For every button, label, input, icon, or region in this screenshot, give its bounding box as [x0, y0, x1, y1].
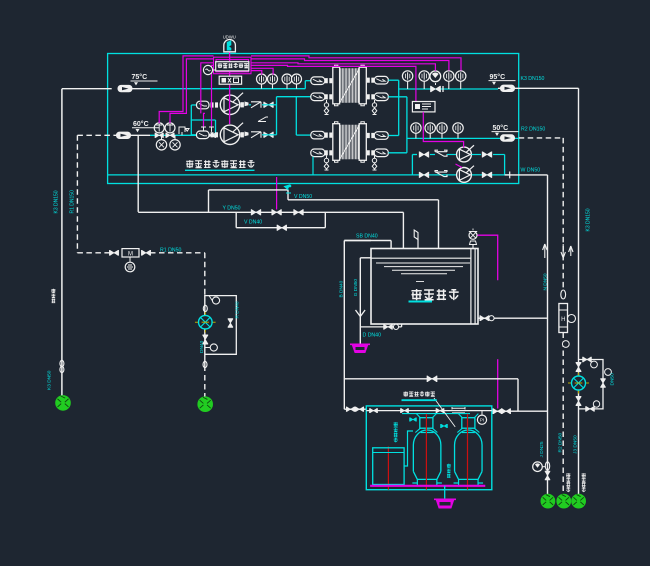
svg-text:DN40: DN40 — [199, 340, 205, 353]
svg-text:V DN40: V DN40 — [244, 220, 262, 226]
svg-text:V DN50: V DN50 — [294, 194, 312, 200]
svg-text:60°C: 60°C — [133, 120, 149, 128]
svg-text:R DN40: R DN40 — [234, 301, 240, 318]
svg-text:DN50: DN50 — [610, 373, 616, 386]
svg-text:Y DN50: Y DN50 — [223, 206, 241, 212]
svg-text:J DN25: J DN25 — [539, 441, 545, 457]
svg-text:R1 DN50: R1 DN50 — [160, 248, 181, 254]
svg-text:R2 DN50: R2 DN50 — [558, 432, 564, 452]
svg-text:N DN50: N DN50 — [543, 273, 549, 290]
svg-text:J3 DN50: J3 DN50 — [573, 435, 579, 454]
svg-text:R2 DN150: R2 DN150 — [521, 127, 545, 133]
svg-text:50°C: 50°C — [493, 124, 509, 132]
svg-text:R1 DN150: R1 DN150 — [70, 190, 76, 214]
svg-text:UDWU: UDWU — [223, 35, 236, 40]
svg-text:SB DN40: SB DN40 — [356, 234, 378, 240]
svg-text:M: M — [128, 252, 133, 258]
svg-text:H: H — [561, 317, 565, 323]
svg-text:K3 DN150: K3 DN150 — [521, 76, 545, 82]
svg-text:75°C: 75°C — [132, 73, 148, 81]
svg-text:G DN50: G DN50 — [353, 279, 359, 297]
svg-text:95°C: 95°C — [490, 73, 506, 81]
svg-text:PI: PI — [480, 418, 484, 423]
svg-text:W DN50: W DN50 — [521, 168, 541, 174]
svg-text:D DN40: D DN40 — [363, 333, 382, 339]
svg-text:K3 DN50: K3 DN50 — [47, 370, 53, 390]
svg-text:K3 DN150: K3 DN150 — [54, 190, 60, 213]
svg-text:K3 DN150: K3 DN150 — [586, 208, 592, 231]
svg-text:B DN40: B DN40 — [338, 280, 344, 297]
